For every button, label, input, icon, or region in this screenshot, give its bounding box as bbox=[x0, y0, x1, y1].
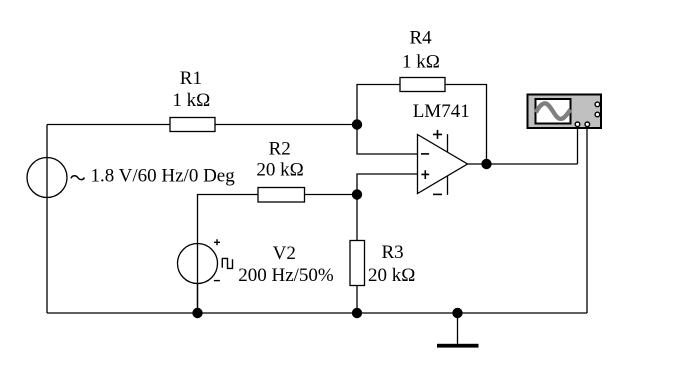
svg-text:V2: V2 bbox=[273, 243, 296, 264]
U1 positive supply pin bbox=[447, 134, 449, 152]
svg-text:R2: R2 bbox=[269, 139, 291, 160]
wire: R4 to output node bbox=[445, 85, 487, 165]
V2 pulse glyph bbox=[222, 258, 232, 268]
svg-text:R1: R1 bbox=[180, 68, 202, 89]
V2 plus mark bbox=[214, 239, 220, 245]
wire: node A up to R4 bbox=[357, 85, 400, 125]
svg-text:200 Hz/50%: 200 Hz/50% bbox=[238, 265, 334, 286]
resistor R1 bbox=[170, 118, 215, 132]
svg-text:20 kΩ: 20 kΩ bbox=[368, 265, 415, 286]
wire: node B down to R3 bbox=[356, 195, 358, 241]
junction node B bbox=[352, 189, 362, 199]
oscilloscope terminal B bbox=[585, 122, 590, 127]
junction output node bbox=[481, 159, 491, 169]
wire: scope channel A lead bbox=[577, 128, 579, 164]
wire: R3 to bottom rail bbox=[356, 286, 358, 314]
oscilloscope sine trace bbox=[536, 103, 571, 119]
wire: V2 to bottom rail bbox=[197, 284, 199, 314]
wire: node B up to non-inverting input bbox=[357, 174, 418, 195]
svg-text:R3: R3 bbox=[382, 242, 404, 263]
wire: left vertical through V1 bbox=[46, 125, 48, 314]
U1 negative supply pin bbox=[447, 176, 449, 195]
V2 minus mark bbox=[214, 280, 220, 282]
oscilloscope terminal A bbox=[575, 122, 580, 127]
wire: R1 to node A bbox=[215, 124, 357, 126]
svg-text:R4: R4 bbox=[410, 28, 433, 49]
source V2 bbox=[178, 244, 218, 284]
oscilloscope screen bbox=[536, 99, 571, 124]
resistor R4 bbox=[400, 78, 445, 92]
junction R3 bottom bbox=[352, 308, 362, 318]
junction ground node bbox=[452, 308, 462, 318]
svg-text:LM741: LM741 bbox=[413, 101, 470, 122]
svg-text:1 kΩ: 1 kΩ bbox=[172, 90, 210, 111]
U1 non-inverting input plus sign bbox=[421, 170, 429, 179]
U1 negative supply minus sign bbox=[433, 193, 442, 195]
resistor R2 bbox=[258, 188, 305, 203]
junction V2 bottom bbox=[192, 308, 202, 318]
ground bbox=[457, 313, 459, 344]
wire: scope channel B lead to bottom rail bbox=[586, 128, 588, 313]
oscilloscope body bbox=[528, 95, 602, 129]
op-amp U1 bbox=[418, 135, 468, 194]
U1 inverting input minus sign bbox=[421, 153, 429, 155]
svg-text:1 kΩ: 1 kΩ bbox=[402, 52, 440, 73]
resistor R3 bbox=[350, 241, 365, 286]
wire: V2 to R2 bbox=[198, 195, 259, 314]
junction node A bbox=[352, 119, 362, 129]
oscilloscope side terminal 2 bbox=[595, 112, 600, 117]
wire: top wire from V1 to R1 bbox=[47, 124, 170, 126]
wire: R2 to node B bbox=[305, 194, 358, 196]
wire: node A down to inverting input bbox=[357, 125, 418, 155]
wire: bottom rail bbox=[47, 312, 587, 314]
V1 value label tilde bbox=[71, 176, 84, 180]
AC source V1 bbox=[27, 158, 67, 198]
svg-text:1.8 V/60 Hz/0 Deg: 1.8 V/60 Hz/0 Deg bbox=[91, 166, 236, 187]
oscilloscope side terminal 1 bbox=[595, 102, 600, 107]
wire: op-amp output to scope bbox=[468, 163, 578, 165]
svg-text:20 kΩ: 20 kΩ bbox=[256, 160, 303, 181]
U1 positive supply plus sign bbox=[433, 130, 442, 139]
